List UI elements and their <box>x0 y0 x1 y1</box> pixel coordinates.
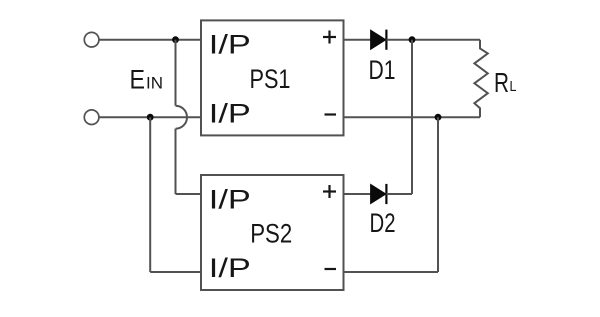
wire to PS2 bottom I/P <box>150 271 201 273</box>
node junction dot top input <box>172 36 179 43</box>
wire PS1 + output to diode D1 <box>344 39 372 41</box>
svg-text:PS2: PS2 <box>250 219 292 249</box>
label PS1 minus <box>325 113 337 115</box>
wire top input: terminal to PS1 I/P <box>99 39 201 41</box>
terminal circle bottom (EIN -) <box>84 110 99 125</box>
svg-text:PS1: PS1 <box>250 64 291 94</box>
power supply PS1 box <box>201 20 344 135</box>
terminal circle top (EIN +) <box>84 32 99 47</box>
node junction dot D1 output <box>409 36 416 43</box>
wire vertical from bottom node down <box>149 117 151 272</box>
wire diode D1 cathode to resistor top <box>386 39 480 41</box>
power supply PS2 box <box>201 175 344 290</box>
svg-text:I/P: I/P <box>209 99 251 129</box>
diode D2 <box>371 184 387 204</box>
wire bottom input: terminal to PS1 bottom I/P <box>99 116 201 118</box>
wire vertical from hop down to PS2 top I/P level <box>175 129 177 194</box>
wire PS1 - output to resistor bottom <box>344 116 481 118</box>
label PS1 plus <box>323 31 336 44</box>
svg-text:I/P: I/P <box>209 30 251 60</box>
svg-text:D1: D1 <box>369 55 396 85</box>
wire to PS2 top I/P <box>176 193 202 195</box>
svg-text:I/P: I/P <box>209 253 251 283</box>
svg-text:I/P: I/P <box>209 184 251 214</box>
wire vertical minus node down to PS2 - output <box>437 117 439 272</box>
label PS2 minus <box>325 268 337 270</box>
svg-text:D2: D2 <box>370 208 396 238</box>
node junction dot bottom input <box>147 114 154 121</box>
svg-text:IN: IN <box>146 74 163 93</box>
svg-text:R: R <box>494 67 509 98</box>
svg-text:L: L <box>510 78 517 95</box>
wire PS2 + output to diode D2 <box>344 193 372 195</box>
diode D1 <box>371 30 387 50</box>
label PS2 plus <box>323 185 336 198</box>
wire diode D2 cathode to vertical riser <box>386 193 412 195</box>
svg-text:E: E <box>130 65 146 95</box>
wire hop over bottom input wire <box>176 106 188 129</box>
wire PS2 - output to minus riser <box>344 271 439 273</box>
wire vertical from top node down to hop <box>175 40 177 106</box>
wire vertical D1 node down to D2 cathode <box>411 40 413 194</box>
node junction dot minus rail <box>435 114 442 121</box>
resistor RL zigzag <box>474 40 487 118</box>
